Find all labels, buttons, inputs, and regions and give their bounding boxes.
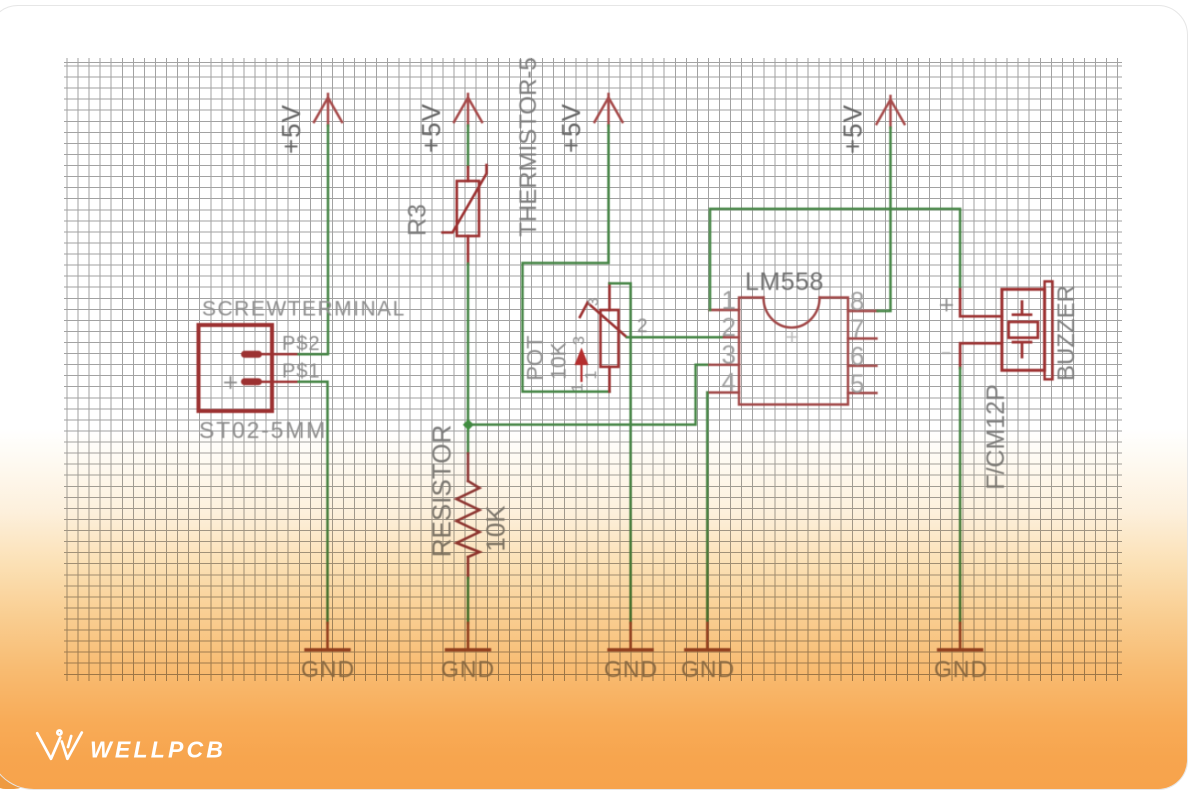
buzzer plus label bbox=[941, 300, 952, 311]
power symbol +5V (net 2) bbox=[454, 94, 482, 126]
wire +5V to IC pin8 bbox=[878, 128, 891, 311]
wire +5V to POT pin1 bbox=[523, 126, 610, 392]
svg-text:WELLPCB: WELLPCB bbox=[90, 737, 226, 763]
pot wiper arrow bbox=[575, 348, 589, 383]
ground GND3 bbox=[604, 623, 658, 682]
thermistor R3 bbox=[443, 165, 487, 264]
ground GND1 bbox=[301, 623, 355, 682]
wire resistor to GND bbox=[467, 578, 470, 623]
buzzer minus label bbox=[943, 352, 950, 354]
power symbol +5V (net 4) bbox=[877, 96, 905, 128]
op-amp plus mark bbox=[787, 332, 797, 342]
power symbol +5V (net 1) bbox=[314, 94, 342, 126]
resistor 10K bbox=[457, 454, 480, 579]
connector SCREWTERMINAL bbox=[199, 325, 299, 411]
wire P$1 to GND bbox=[299, 382, 328, 623]
wire buzzer minus to GND bbox=[959, 368, 962, 623]
wire POT wiper to IC pin2 bbox=[627, 336, 724, 339]
potentiometer POT bbox=[580, 283, 626, 391]
op-amp U1 LM558 bbox=[707, 298, 877, 405]
wire P$2 net bbox=[299, 353, 328, 356]
wire +5V to R3 bbox=[467, 126, 470, 167]
background sheet wedge bbox=[0, 745, 34, 789]
buzzer LS1 bbox=[960, 281, 1052, 379]
wire R3 to junction to resistor bbox=[467, 264, 470, 454]
LOGO bbox=[37, 731, 82, 759]
wire IC pin1 to buzzer plus rail bbox=[710, 209, 960, 310]
ground GND2 bbox=[441, 623, 495, 682]
wire IC pin4 to GND bbox=[706, 393, 709, 624]
wire POT pin3 to GND bbox=[610, 283, 631, 623]
junction node bbox=[463, 419, 474, 430]
power symbol +5V (net 3) bbox=[595, 94, 623, 126]
ground GND5 bbox=[934, 623, 988, 682]
ground GND4 bbox=[681, 623, 735, 682]
wire +5V to P$2 bbox=[327, 126, 330, 354]
wire junction to IC pin3 bbox=[468, 365, 709, 425]
